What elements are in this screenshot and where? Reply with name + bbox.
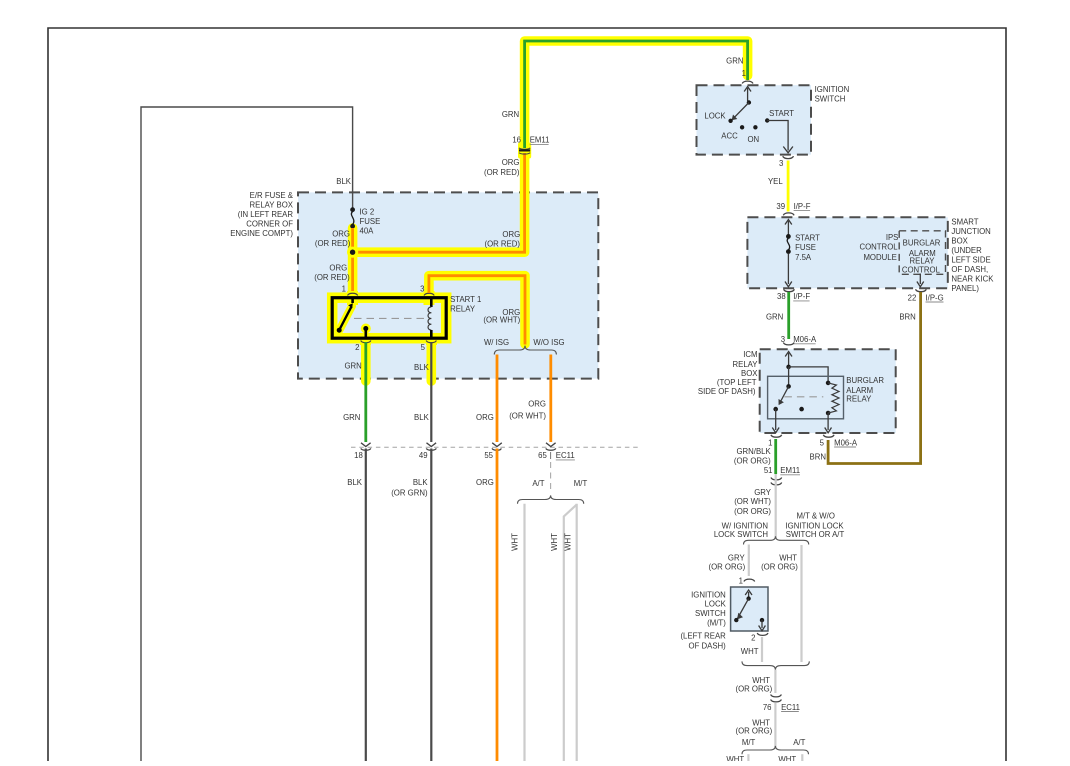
svg-text:JUNCTION: JUNCTION (951, 227, 990, 236)
svg-text:IPS: IPS (886, 233, 899, 242)
node ON (753, 125, 757, 129)
svg-text:(OR WHT): (OR WHT) (483, 316, 520, 325)
svg-text:GRN/BLK: GRN/BLK (736, 447, 771, 456)
relay K1 switch feed wire (788, 367, 790, 386)
wire GRN/BLK below ICM (774, 439, 777, 474)
fuse IG 2 (350, 207, 355, 212)
wire ORG W/ISG (496, 355, 499, 443)
wire BRN (828, 292, 921, 464)
svg-text:EC11: EC11 (781, 703, 800, 712)
svg-text:BLK: BLK (336, 177, 352, 186)
svg-text:M/T: M/T (574, 479, 588, 488)
svg-text:55: 55 (484, 451, 493, 460)
svg-text:22: 22 (908, 293, 917, 302)
svg-text:SWITCH: SWITCH (695, 609, 726, 618)
wire WHT M/T pair (576, 504, 578, 761)
wire ORG relay pin 3 (429, 276, 525, 345)
wires below connector row (365, 449, 367, 762)
wire GRN relay pin 2 down (364, 342, 367, 442)
svg-text:ORG: ORG (329, 263, 347, 272)
split brace ISG (494, 346, 556, 355)
svg-text:7.5A: 7.5A (795, 253, 812, 262)
relay K1 movable arm (780, 386, 789, 403)
svg-text:CONTROL: CONTROL (859, 242, 898, 251)
svg-text:40A: 40A (360, 227, 375, 236)
svg-text:W/ ISG: W/ ISG (484, 338, 509, 347)
svg-text:(OR ORG): (OR ORG) (761, 562, 798, 571)
svg-text:IGNITION: IGNITION (815, 85, 850, 94)
svg-text:16: 16 (512, 136, 521, 145)
relay pin 1 stub (351, 298, 354, 303)
wire WHT merged (774, 670, 776, 693)
svg-text:(M/T): (M/T) (707, 619, 726, 628)
svg-text:5: 5 (421, 343, 426, 352)
svg-text:FUSE: FUSE (795, 243, 816, 252)
svg-text:NEAR KICK: NEAR KICK (951, 275, 994, 284)
svg-text:ON: ON (747, 135, 759, 144)
lock switch pivot node (746, 596, 750, 600)
START 1 relay box (332, 298, 446, 339)
wire GRN highlighted to ignition switch (525, 41, 748, 148)
svg-text:I/P-F: I/P-F (793, 292, 810, 301)
wire ORG W/O ISG (549, 355, 552, 443)
wire below 76 (774, 703, 776, 748)
node ACC (740, 125, 744, 129)
svg-text:(OR RED): (OR RED) (484, 168, 520, 177)
smart junction box label (951, 218, 994, 294)
svg-text:RELAY: RELAY (733, 360, 759, 369)
svg-text:BURGLAR: BURGLAR (846, 376, 884, 385)
svg-text:GRN: GRN (726, 56, 743, 65)
connector arrows and cups 18 49 55 65 (361, 443, 556, 450)
svg-text:LEFT SIDE: LEFT SIDE (951, 256, 990, 265)
svg-text:PANEL): PANEL) (951, 284, 979, 293)
svg-text:RELAY: RELAY (450, 305, 476, 314)
svg-text:GRY: GRY (728, 553, 746, 562)
relay coil (430, 298, 433, 307)
svg-text:(OR ORG): (OR ORG) (735, 727, 772, 736)
svg-text:WHT: WHT (564, 533, 573, 551)
lock switch pin 2 node (760, 618, 764, 622)
inner relay rect (768, 376, 844, 419)
svg-text:A/T: A/T (532, 479, 544, 488)
svg-text:5: 5 (820, 438, 825, 447)
svg-text:(OR WHT): (OR WHT) (734, 497, 771, 506)
svg-text:(UNDER: (UNDER (951, 246, 982, 255)
svg-text:ICM: ICM (743, 350, 757, 359)
svg-text:MODULE: MODULE (863, 253, 896, 262)
svg-text:IGNITION: IGNITION (691, 591, 726, 600)
svg-text:WHT: WHT (726, 755, 744, 761)
svg-text:2: 2 (751, 633, 755, 642)
svg-text:ORG: ORG (332, 230, 350, 239)
svg-text:YEL: YEL (768, 177, 783, 186)
svg-text:BRN: BRN (810, 453, 826, 462)
relay K1 NO contact node (799, 407, 804, 412)
yellow highlight halo: GRN wire to ignition switch (525, 41, 748, 152)
svg-text:1: 1 (342, 285, 346, 294)
smart junction box (747, 217, 947, 288)
dashed option stub below 65 (550, 462, 552, 490)
svg-text:ALARM: ALARM (846, 386, 873, 395)
ICM relay box label (698, 350, 758, 396)
svg-text:(IN LEFT REAR: (IN LEFT REAR (238, 210, 294, 219)
svg-text:2: 2 (355, 343, 359, 352)
svg-text:(OR ORG): (OR ORG) (734, 456, 771, 465)
svg-text:WHT: WHT (779, 553, 797, 562)
svg-text:BLK: BLK (413, 478, 429, 487)
svg-text:LOCK: LOCK (705, 600, 727, 609)
svg-text:A/T: A/T (793, 738, 805, 747)
svg-text:LOCK: LOCK (704, 111, 726, 120)
svg-text:GRN: GRN (766, 313, 783, 322)
ignition lock switch box (731, 587, 768, 631)
svg-text:GRY: GRY (754, 488, 772, 497)
wire WHT A/T (523, 504, 525, 761)
svg-text:E/R FUSE &: E/R FUSE & (250, 191, 294, 200)
svg-text:49: 49 (419, 451, 428, 460)
lock switch pin 1 entry arrow (748, 592, 750, 598)
svg-text:WHT: WHT (550, 533, 559, 551)
ignition switch pivot node (747, 100, 751, 104)
relay internal dashed link (354, 317, 428, 319)
svg-text:18: 18 (354, 451, 363, 460)
svg-text:ORG: ORG (502, 158, 520, 167)
svg-text:(OR ORG): (OR ORG) (734, 507, 771, 516)
svg-text:ORG: ORG (476, 478, 494, 487)
ICM relay box (760, 349, 896, 433)
ignition switch box (697, 85, 812, 154)
wire START contact to pin 3 (767, 121, 788, 151)
svg-text:SMART: SMART (951, 218, 978, 227)
ICM coil (826, 381, 831, 386)
svg-text:39: 39 (776, 202, 785, 211)
svg-text:OF DASH): OF DASH) (689, 641, 727, 650)
wires WHT bottom (747, 754, 749, 761)
ignition switch pin 1 entry arrow (747, 88, 749, 101)
svg-text:I/P-G: I/P-G (926, 293, 944, 302)
yellow highlight halo: ORG wires (353, 155, 525, 252)
wire GRN below SJB (787, 292, 790, 339)
wire GRY to lock switch (748, 545, 750, 577)
svg-text:BOX: BOX (741, 369, 758, 378)
wire BLK from frame to fuse (141, 107, 353, 761)
yellow halo: relay pins below (361, 342, 371, 381)
svg-text:3: 3 (420, 285, 424, 294)
START FUSE 7.5A (786, 234, 791, 239)
relay K1 pivot node (786, 384, 791, 389)
wire YEL (787, 161, 790, 212)
svg-text:38: 38 (777, 292, 786, 301)
burglar alarm relay control label (902, 239, 941, 275)
svg-text:(OR WHT): (OR WHT) (509, 412, 546, 421)
svg-text:RELAY: RELAY (910, 256, 936, 265)
junction dot (347, 247, 358, 258)
wire ORG from fuse to relay pin 1 (351, 228, 354, 293)
split brace bottom (742, 746, 809, 754)
relay K1 NC contact node (773, 407, 778, 412)
split brace A/T M/T (518, 495, 584, 503)
connector 76 EC11 (771, 695, 782, 697)
svg-text:GRN: GRN (502, 110, 519, 119)
connector 22 I/P-G (916, 289, 927, 291)
svg-text:(OR RED): (OR RED) (484, 239, 520, 248)
ignition switch rotor arm to LOCK (733, 103, 749, 120)
svg-text:START 1: START 1 (450, 295, 481, 304)
svg-text:LOCK SWITCH: LOCK SWITCH (714, 530, 768, 539)
svg-text:EM11: EM11 (780, 466, 800, 475)
relay pin cups (348, 293, 358, 295)
ICM exit arrows (775, 409, 777, 430)
ICM entry arrow (788, 353, 790, 366)
wire GRY below 51 (775, 474, 777, 538)
svg-text:START: START (769, 109, 794, 118)
svg-text:(OR RED): (OR RED) (314, 273, 350, 282)
svg-text:65: 65 (538, 451, 547, 460)
svg-text:BRN: BRN (899, 313, 915, 322)
svg-text:ORG: ORG (528, 400, 546, 409)
svg-text:(LEFT REAR: (LEFT REAR (680, 632, 726, 641)
svg-text:(TOP LEFT: (TOP LEFT (717, 378, 757, 387)
svg-text:3: 3 (779, 159, 783, 168)
svg-text:GRN: GRN (343, 413, 360, 422)
svg-text:EM11: EM11 (530, 136, 550, 145)
lock switch arm (738, 599, 749, 619)
cup at ignition switch pin 1 (742, 81, 753, 83)
svg-text:(OR ORG): (OR ORG) (708, 562, 745, 571)
wire to coil (789, 367, 829, 383)
SJB entry arrow (787, 221, 789, 235)
wire ORG horizontal from EM11 drop (353, 153, 525, 252)
svg-text:ORG: ORG (476, 413, 494, 422)
svg-text:ORG: ORG (502, 230, 520, 239)
merge brace below lock switch (742, 661, 809, 669)
svg-text:ACC: ACC (721, 131, 738, 140)
yellow halo: EM11 connector (518, 143, 531, 159)
svg-text:START: START (795, 234, 820, 243)
svg-text:EC11: EC11 (556, 451, 575, 460)
svg-text:M06-A: M06-A (793, 335, 817, 344)
svg-text:M/T & W/O: M/T & W/O (796, 512, 834, 521)
svg-text:GRN: GRN (344, 361, 361, 370)
svg-text:(OR GRN): (OR GRN) (391, 489, 428, 498)
svg-text:WHT: WHT (741, 647, 759, 656)
relay switch arm (340, 307, 352, 330)
svg-text:76: 76 (763, 703, 772, 712)
svg-text:ENGINE COMPT): ENGINE COMPT) (230, 229, 293, 238)
svg-text:CORNER OF: CORNER OF (246, 219, 293, 228)
arrow below burglar alarm relay control (919, 274, 921, 285)
lock switch contact node (734, 618, 738, 622)
connector row dashed line (351, 446, 638, 448)
svg-text:RELAY BOX: RELAY BOX (250, 201, 294, 210)
wire WHT below lock switch (761, 637, 763, 662)
svg-text:OF DASH,: OF DASH, (951, 265, 988, 274)
svg-text:CONTROL: CONTROL (902, 266, 941, 275)
lock switch pin 2 exit arrow (761, 620, 763, 628)
svg-text:M/T: M/T (742, 738, 756, 747)
svg-text:W/O ISG: W/O ISG (533, 338, 564, 347)
svg-text:FUSE: FUSE (360, 217, 381, 226)
connector 38 I/P-F (784, 289, 795, 291)
split brace below GRY (744, 536, 809, 544)
svg-text:1: 1 (742, 69, 746, 78)
cup below ignition switch pin 3 (783, 156, 794, 158)
svg-text:BURGLAR: BURGLAR (903, 239, 941, 248)
ICM dashed link (784, 396, 823, 398)
svg-text:IG 2: IG 2 (360, 208, 375, 217)
burglar alarm relay control dashed box (899, 231, 945, 274)
relay pin 2 stub with dot (363, 326, 368, 331)
svg-text:(OR RED): (OR RED) (315, 239, 351, 248)
svg-text:BLK: BLK (347, 478, 363, 487)
svg-text:SWITCH: SWITCH (815, 95, 846, 104)
svg-text:(OR ORG): (OR ORG) (735, 685, 772, 694)
svg-text:1: 1 (739, 576, 743, 585)
svg-text:BOX: BOX (951, 237, 968, 246)
svg-text:SIDE OF DASH): SIDE OF DASH) (698, 387, 756, 396)
svg-text:RELAY: RELAY (846, 395, 872, 404)
svg-text:BLK: BLK (414, 363, 430, 372)
ignition lock switch label (680, 591, 726, 651)
svg-text:WHT: WHT (511, 533, 520, 551)
svg-text:51: 51 (764, 466, 773, 475)
E/R box label (230, 191, 294, 238)
svg-text:BLK: BLK (414, 413, 430, 422)
svg-text:I/P-F: I/P-F (794, 202, 811, 211)
E/R fuse & relay box (298, 192, 598, 378)
node LOCK (728, 119, 732, 123)
wire BLK relay pin 5 down (430, 342, 432, 442)
svg-text:SWITCH OR A/T: SWITCH OR A/T (786, 530, 845, 539)
node START (765, 118, 769, 122)
svg-text:M06-A: M06-A (834, 438, 858, 447)
START 1 relay yellow halo (332, 298, 446, 339)
IPS control module label (859, 233, 898, 262)
svg-text:WHT: WHT (778, 755, 796, 761)
cups below ICM (771, 435, 782, 437)
wire WHT right branch (800, 545, 802, 662)
